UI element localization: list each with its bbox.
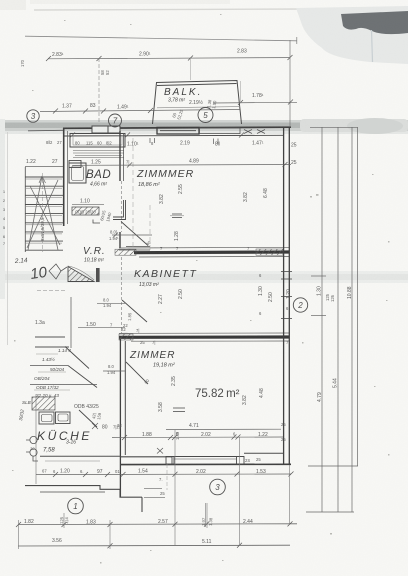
stair centerline dashed: [42, 173, 44, 252]
svg-text:4.71: 4.71: [189, 423, 199, 429]
svg-text:8.0|: 8.0|: [110, 230, 117, 235]
svg-text:5.11: 5.11: [202, 539, 212, 545]
gas meter circles: [26, 436, 38, 461]
vertical faint line bottom center: [205, 503, 207, 527]
vertical connector x240 balcony corner: [240, 81, 242, 103]
page top grey smear: [30, 0, 230, 4]
svg-text:4.79: 4.79: [317, 392, 323, 402]
svg-text:23: 23: [117, 423, 122, 428]
bottom wall inner line left part: [120, 456, 172, 458]
svg-text:75.82 m²: 75.82 m²: [195, 388, 240, 400]
svg-text:6: 6: [3, 235, 5, 239]
long faint top line: [25, 36, 297, 41]
entrance door frame post: [96, 268, 100, 282]
svg-text:BAD: BAD: [86, 169, 111, 181]
svg-text:4: 4: [3, 217, 5, 221]
svg-text:2.50: 2.50: [178, 289, 184, 299]
bottom window recess: [166, 457, 244, 465]
top inner wall line: [63, 134, 283, 137]
svg-text:1.38: 1.38: [208, 517, 213, 526]
right top dim line 1.78: [213, 101, 297, 104]
svg-text:ODB 20/20: ODB 20/20: [75, 210, 96, 215]
svg-text:6.: 6.: [80, 469, 84, 474]
VR door dim line: [112, 234, 152, 236]
anteroom door swing 1: [65, 347, 89, 369]
KUECHE door swing: [79, 410, 97, 427]
entrance arc line: [68, 266, 94, 280]
long chain y474: [36, 473, 291, 476]
svg-text:67: 67: [42, 469, 47, 474]
VR right wall piece with jog: [113, 200, 126, 220]
axis circle 3: [27, 108, 308, 514]
lower-left wall ZIMMER/KUECHE divider (double): [119, 339, 121, 497]
svg-text:3: 3: [3, 208, 5, 212]
wall dim row tick marks: [70, 133, 244, 145]
svg-text:1.30: 1.30: [317, 286, 323, 296]
svg-text:7|: 7|: [136, 328, 139, 333]
top-left page corner grey: [0, 0, 26, 10]
left outer wall (stairwell/BAD): [63, 128, 65, 226]
stair big cross diagonal: [27, 180, 58, 248]
svg-text:115: 115: [86, 141, 93, 146]
svg-text:8.0: 8.0: [108, 364, 114, 369]
circle numbers: [31, 111, 304, 511]
svg-text:OB/204: OB/204: [34, 376, 50, 381]
axis circle 3 bottom: [210, 479, 226, 495]
svg-text:5: 5: [203, 111, 208, 120]
svg-text:6.48: 6.48: [263, 188, 269, 198]
4.89 line: [72, 164, 291, 167]
svg-text:2.44: 2.44: [243, 519, 253, 525]
svg-text:1.47¹: 1.47¹: [252, 141, 264, 147]
svg-text:27: 27: [57, 140, 62, 145]
svg-text:7,58: 7,58: [43, 448, 55, 454]
big room radiator: [173, 408, 185, 412]
svg-text:7|: 7|: [152, 340, 155, 345]
KABINETT top wall hatch right: [256, 249, 283, 255]
wall axis extension left: [28, 129, 63, 132]
svg-text:1.49¹: 1.49¹: [117, 105, 129, 111]
axis circle 7: [109, 114, 122, 127]
svg-text:1.94: 1.94: [103, 303, 112, 308]
4.71 dim line: [166, 428, 281, 430]
bottom chain y545: [18, 544, 290, 547]
vertical connector x99 dashed: [98, 58, 100, 122]
window X marks on top wall: [244, 130, 265, 134]
scanner grey band 1 across page: [0, 120, 408, 124]
svg-text:1.20: 1.20: [60, 469, 70, 475]
corridor door dim line: [97, 302, 125, 304]
svg-text:80: 80: [102, 425, 108, 431]
top-right light grey scan smudge: [296, 6, 408, 64]
pencil scribbles left column: [18, 348, 71, 451]
KABINETT left wall dashed: [121, 257, 123, 333]
svg-text:2.19: 2.19: [180, 141, 190, 147]
svg-text:2.50: 2.50: [268, 292, 274, 302]
svg-text:1.88: 1.88: [142, 432, 152, 438]
BAD window sill lines: [73, 151, 124, 158]
stair direction diagonals: [28, 176, 60, 250]
svg-text:9x17,5/32,5: 9x17,5/32,5: [40, 217, 45, 241]
chain line 1.88/2.02/1.22: [112, 436, 283, 439]
kitchen fixture stove: [56, 412, 71, 424]
BAD niche hatched: [72, 207, 99, 215]
svg-text:8.0: 8.0: [103, 298, 109, 303]
svg-text:7: 7: [113, 117, 118, 126]
svg-text:3.82: 3.82: [159, 194, 165, 204]
svg-text:1.37: 1.37: [62, 104, 72, 110]
svg-text:5.44: 5.44: [333, 378, 339, 388]
svg-text:2.14: 2.14: [14, 257, 28, 265]
extra stair tread shadow lines: [26, 179, 62, 243]
svg-text:25: 25: [160, 491, 165, 496]
small detail lines below 1.54: [144, 487, 162, 489]
axis dim line through circles: [40, 110, 240, 112]
bottom chain y524: [18, 523, 297, 526]
svg-text:3-16: 3-16: [66, 440, 76, 446]
svg-text:25: 25: [291, 143, 297, 149]
svg-text:32.20 u. 43: 32.20 u. 43: [36, 393, 59, 398]
svg-text:8‖2: 8‖2: [46, 140, 53, 145]
svg-text:3,78 m²: 3,78 m²: [168, 98, 185, 104]
svg-text:19,18 m²: 19,18 m²: [153, 363, 175, 369]
right dims lowest terminator: [306, 511, 354, 513]
right dims bottom terminator: [308, 465, 358, 467]
svg-text:4.89: 4.89: [189, 159, 199, 165]
svg-text:30: 30: [30, 446, 35, 451]
svg-text:2S: 2S: [245, 458, 250, 463]
svg-text:2.19½: 2.19½: [189, 99, 204, 106]
right outer wall (double): [283, 127, 285, 464]
svg-text:1.25: 1.25: [91, 160, 101, 166]
svg-text:1.53: 1.53: [256, 469, 266, 475]
svg-text:1.83: 1.83: [86, 520, 96, 526]
svg-text:18,86 m²: 18,86 m²: [138, 182, 160, 188]
svg-text:126: 126: [330, 294, 335, 302]
svg-text:2.55: 2.55: [178, 184, 184, 194]
svg-text:2.27: 2.27: [158, 294, 164, 304]
BAD right wall: [119, 131, 121, 181]
svg-text:8‖: 8‖: [215, 142, 220, 148]
svg-text:10.88: 10.88: [347, 286, 353, 299]
svg-text:13,03 m²: 13,03 m²: [139, 282, 159, 288]
svg-text:1.94¹: 1.94¹: [109, 236, 119, 241]
vertical connector x290: [289, 40, 291, 126]
svg-text:7․: 7․: [159, 477, 163, 482]
svg-text:2.35: 2.35: [171, 376, 177, 386]
svg-text:SLB: SLB: [22, 400, 31, 405]
svg-text:2.57: 2.57: [158, 519, 168, 525]
axis circle 5: [198, 108, 213, 123]
svg-text:1.10¹: 1.10¹: [127, 142, 139, 148]
stair treads: [25, 177, 63, 250]
VR right wall lower: [119, 232, 121, 248]
stairwell left wall: [24, 167, 26, 252]
diamond mark after 10: [49, 264, 67, 279]
balcony outline: [153, 81, 242, 125]
axis circle 1: [68, 498, 84, 514]
svg-text:50/204: 50/204: [50, 367, 64, 372]
bottom verticals: [19, 430, 290, 549]
svg-text:4.48: 4.48: [259, 388, 265, 398]
interior dashed verticals: [132, 138, 134, 250]
svg-text:1.43½: 1.43½: [42, 356, 55, 362]
top page edge faint line: [34, 9, 306, 10]
svg-text:1.30: 1.30: [258, 286, 264, 296]
kitchen fixture sink: [39, 412, 70, 424]
page left faint vertical: [7, 132, 9, 345]
svg-text:25: 25: [140, 340, 145, 345]
top outer wall: [63, 127, 291, 128]
svg-text:5: 5: [3, 226, 5, 230]
svg-text:1.14 4: 1.14 4: [58, 348, 71, 353]
svg-text:97: 97: [97, 469, 103, 475]
left margin tick column: [3, 190, 5, 246]
anteroom door swing 2: [68, 366, 97, 388]
paper scan noise overlay: [0, 0, 1, 1]
ZIMMER radiator: [170, 214, 184, 218]
svg-text:25: 25: [291, 160, 297, 166]
svg-text:1.50: 1.50: [86, 322, 96, 328]
entrance door hatch triangle: [68, 267, 94, 282]
zimmer2 door dim line: [103, 370, 125, 372]
svg-text:4,66 m²: 4,66 m²: [90, 182, 107, 188]
svg-text:170: 170: [20, 59, 25, 67]
svg-text:1.3a: 1.3a: [35, 320, 45, 326]
svg-text:1.10: 1.10: [80, 199, 90, 205]
KABINETT bottom wall hatch left: [119, 334, 133, 340]
svg-text:2.83¹: 2.83¹: [52, 52, 64, 58]
wall piers above top wall: [92, 126, 108, 133]
right wall window sill marks (KABINETT): [281, 272, 292, 319]
svg-text:1.82: 1.82: [24, 519, 34, 525]
svg-text:BALK.: BALK.: [164, 87, 202, 98]
svg-text:1.54: 1.54: [138, 469, 148, 475]
svg-text:ZIMMMER: ZIMMMER: [136, 168, 194, 180]
BAD window frame box in top wall: [70, 134, 125, 148]
KABINETT top wall hatch left: [115, 249, 136, 255]
svg-text:27: 27: [52, 159, 58, 165]
svg-text:3.82: 3.82: [242, 395, 248, 405]
top-right dark scan blob: [341, 11, 408, 34]
balcony door panel in top wall: [157, 127, 199, 134]
ZIMMER2 door swing: [126, 362, 148, 384]
svg-text:3: 3: [215, 483, 220, 492]
window panel right of balcony door: [200, 128, 241, 134]
svg-text:2.90¹: 2.90¹: [139, 52, 151, 58]
corridor lines: [35, 336, 65, 338]
svg-text:ODB 43/25: ODB 43/25: [74, 404, 99, 410]
chimney hatched block: [32, 397, 55, 410]
BAD 1.10 dim line: [72, 203, 104, 205]
bottom outer wall: [120, 463, 291, 465]
svg-text:2: 2: [297, 301, 303, 310]
svg-text:3.58: 3.58: [158, 402, 164, 412]
svg-text:1: 1: [3, 190, 5, 194]
left dim line above stairs: [25, 166, 63, 168]
svg-text:1.22: 1.22: [26, 159, 36, 165]
svg-text:7: 7: [3, 242, 5, 246]
axis circle 2: [293, 298, 307, 312]
corridor 1.50 dim line: [78, 326, 125, 328]
corridor dashed line: [37, 290, 65, 292]
VR/ZIMMER door lintel lines: [119, 247, 150, 251]
ticks on top dim line: [46, 55, 293, 61]
svg-text:KABINETT: KABINETT: [134, 268, 197, 280]
svg-text:V.R.: V.R.: [83, 246, 106, 257]
svg-text:1.85: 1.85: [127, 312, 132, 321]
svg-text:3.56: 3.56: [52, 538, 62, 544]
KUECHE bottom inner line: [40, 455, 120, 457]
vertical connector x190: [190, 58, 192, 80]
corridor vertical wall line: [70, 297, 72, 348]
svg-text:1.22: 1.22: [258, 432, 268, 438]
right dims mid ticks: [311, 275, 326, 277]
bottom wall inner line right part: [244, 452, 284, 454]
svg-text:22: 22: [123, 323, 128, 328]
faint pencil line marks: [34, 354, 70, 390]
svg-text:8|2: 8|2: [106, 141, 112, 146]
svg-text:3: 3: [31, 112, 36, 121]
svg-text:10: 10: [29, 264, 49, 283]
svg-text:114: 114: [64, 517, 69, 525]
window X mark bottom wall: [157, 448, 163, 454]
KABINETT bottom wall: [119, 332, 289, 334]
svg-text:25: 25: [281, 422, 286, 427]
svg-text:1.78¹: 1.78¹: [252, 93, 264, 99]
svg-text:83: 83: [90, 103, 96, 109]
KABINETT door swing: [122, 300, 147, 322]
svg-text:2.02: 2.02: [201, 432, 211, 438]
svg-text:25: 25: [256, 457, 261, 462]
top dim line 2.83/2.90: [48, 58, 290, 59]
svg-text:KÜCHE: KÜCHE: [37, 429, 92, 443]
svg-text:10,18 m²: 10,18 m²: [84, 258, 104, 264]
bottom-left protrusion outline: [25, 486, 142, 512]
VR/ZIMMER door swing: [121, 222, 148, 246]
svg-text:ODB 17/32: ODB 17/32: [36, 385, 59, 390]
svg-text:60: 60: [97, 141, 102, 146]
svg-text:ZIMMER: ZIMMER: [129, 350, 175, 361]
svg-text:1.20: 1.20: [286, 289, 292, 299]
svg-text:80: 80: [75, 141, 80, 146]
svg-text:1: 1: [73, 502, 77, 511]
svg-text:25: 25: [281, 437, 286, 442]
svg-text:7|: 7|: [126, 160, 129, 165]
BAD door dashed gap: [121, 181, 123, 232]
svg-text:01: 01: [115, 469, 120, 474]
svg-text:2.83: 2.83: [237, 49, 247, 55]
BAD bathtub: [69, 161, 86, 184]
right dims top terminator: [310, 126, 358, 128]
left edge grey strip: [0, 119, 5, 299]
scanner grey band 2 (faint, mid page): [0, 271, 408, 283]
band1 right lighter blob: [300, 119, 408, 132]
svg-text:3.82: 3.82: [243, 192, 249, 202]
svg-text:2.02: 2.02: [196, 469, 206, 475]
KUECHE left faint wall: [35, 394, 37, 484]
svg-text:52: 52: [105, 70, 110, 75]
svg-text:2: 2: [3, 199, 5, 203]
KABINETT top wall: [119, 246, 289, 249]
svg-text:1.28: 1.28: [174, 231, 180, 241]
svg-text:1.94: 1.94: [107, 370, 116, 375]
